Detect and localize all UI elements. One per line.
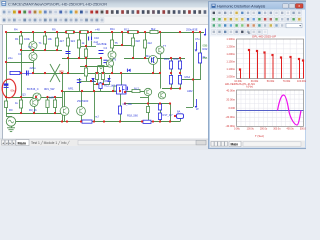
svg-text:400.0u: 400.0u [287, 128, 295, 131]
svg-text:3k3: 3k3 [71, 39, 76, 43]
svg-text:250u/63E: 250u/63E [186, 28, 198, 32]
svg-text:6k8: 6k8 [136, 39, 141, 43]
svg-text:R19: R19 [164, 57, 169, 61]
svg-text:C:\MCE\ZMAX\New\OPS\OPL-HD-25D: C:\MCE\ZMAX\New\OPS\OPL-HD-25D\OPL-HD-25… [8, 1, 107, 6]
svg-text:R11: R11 [110, 27, 115, 31]
svg-text:1.100m: 1.100m [226, 67, 235, 71]
svg-text:R20: R20 [174, 57, 179, 61]
svg-text:-20.00m: -20.00m [225, 115, 235, 119]
svg-text:8k2: 8k2 [151, 27, 156, 31]
svg-text:R1: R1 [15, 37, 19, 41]
svg-text:200.0u: 200.0u [260, 128, 268, 131]
svg-text:R9: R9 [52, 28, 56, 32]
svg-text:1.250m: 1.250m [226, 45, 235, 49]
svg-text:T5: T5 [115, 41, 119, 45]
svg-text:1.150m: 1.150m [226, 60, 235, 64]
svg-text:220u: 220u [30, 66, 36, 70]
svg-text:500.0u: 500.0u [300, 128, 306, 131]
svg-text:0R1_5W: 0R1_5W [44, 87, 55, 91]
svg-text:R0: R0 [9, 108, 13, 112]
svg-text:20.00m: 20.00m [226, 97, 235, 101]
svg-text:Test 1 ╱ Module 1 ╱ Info ╱: Test 1 ╱ Module 1 ╱ Info ╱ [31, 141, 69, 145]
svg-text:C10: C10 [94, 36, 99, 40]
svg-text:T7: T7 [163, 44, 167, 48]
svg-text:AM2: AM2 [187, 89, 193, 93]
svg-text:Main: Main [231, 143, 239, 147]
svg-text:T1: T1 [39, 41, 43, 45]
svg-text:C8_10u: C8_10u [123, 102, 133, 106]
svg-text:BC546_C: BC546_C [27, 87, 39, 91]
svg-text:100.0u: 100.0u [247, 128, 255, 131]
svg-text:1.200m: 1.200m [226, 52, 235, 56]
svg-text:MA4: MA4 [185, 75, 191, 79]
svg-text:NL2: NL2 [134, 86, 139, 90]
svg-text:2k2: 2k2 [148, 41, 153, 45]
svg-text:T6: T6 [113, 58, 117, 62]
svg-text:OPL-HD-2025-UP: OPL-HD-2025-UP [252, 34, 276, 38]
svg-text:Q3: Q3 [22, 93, 26, 97]
svg-text:Harmonic Distortion Analysis: Harmonic Distortion Analysis [217, 5, 265, 9]
svg-text:10R: 10R [49, 96, 54, 100]
svg-text:HD-VERSUS-(PL-2)-NU: HD-VERSUS-(PL-2)-NU [225, 82, 255, 86]
svg-text:R18_560: R18_560 [127, 114, 138, 118]
svg-text:R3_2k: R3_2k [29, 108, 37, 112]
svg-text:R22: R22 [203, 47, 208, 51]
svg-text:300.0u: 300.0u [273, 128, 281, 131]
svg-text:+48: +48 [95, 28, 100, 32]
svg-text:Main: Main [18, 141, 27, 145]
svg-text:C1: C1 [18, 52, 22, 56]
svg-text:R12_1k8: R12_1k8 [104, 84, 115, 88]
svg-text:R12: R12 [124, 28, 129, 32]
svg-text:70.00k: 70.00k [283, 80, 291, 83]
svg-text:24u: 24u [8, 56, 13, 60]
svg-text:OPS: OPS [104, 79, 110, 83]
svg-text:T (Sec): T (Sec) [255, 134, 264, 138]
svg-text:0P5: 0P5 [59, 70, 64, 74]
svg-text:x: x [298, 4, 300, 8]
svg-text:05B: 05B [203, 44, 208, 48]
svg-text:50.00k: 50.00k [267, 80, 275, 83]
svg-text:0.00u: 0.00u [234, 128, 241, 131]
svg-text:100.00k: 100.00k [297, 80, 306, 83]
svg-text:C4: C4 [104, 46, 108, 50]
svg-text:1.050m: 1.050m [226, 75, 235, 79]
svg-text:10k: 10k [48, 37, 53, 41]
svg-text:T2: T2 [28, 45, 32, 49]
svg-text:100k: 100k [24, 37, 30, 41]
svg-text:NR1: NR1 [68, 87, 74, 91]
svg-text:4k7: 4k7 [60, 39, 65, 43]
svg-text:1.300m: 1.300m [226, 37, 235, 41]
svg-text:22u/50E: 22u/50E [97, 42, 107, 46]
svg-text:2SC5200: 2SC5200 [77, 99, 89, 103]
svg-text:0.000: 0.000 [229, 106, 236, 110]
svg-text:R17_0.7: R17_0.7 [163, 113, 174, 117]
svg-text:M1: M1 [146, 54, 150, 58]
svg-text:8A: 8A [177, 110, 180, 114]
svg-text:R4: R4 [14, 28, 18, 32]
svg-text:06B: 06B [203, 56, 208, 60]
svg-text:40.00m: 40.00m [226, 88, 235, 92]
svg-text:47u: 47u [195, 37, 200, 41]
svg-text:60u: 60u [11, 89, 16, 93]
